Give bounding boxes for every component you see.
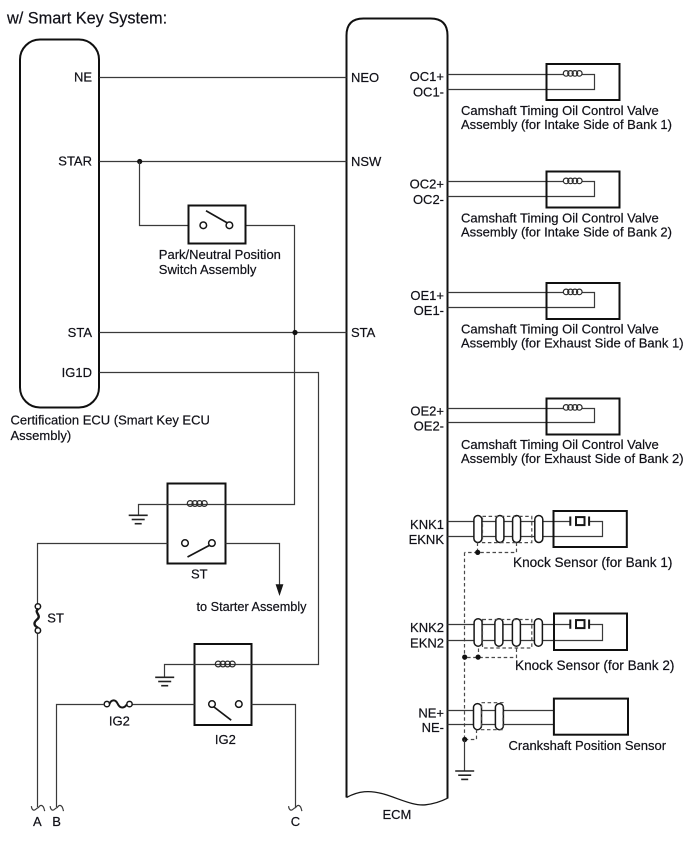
- certification ECU U1 (Smart Key ECU Assembly): [20, 40, 99, 408]
- valve V3 box: [547, 283, 620, 319]
- wire fuse ST to connector A: [37, 634, 39, 808]
- shield (dashed) KNK1 row: [483, 516, 532, 542]
- wire IG1D to IG2 relay coil: [100, 373, 319, 665]
- svg-text:Assembly (for Intake Side of B: Assembly (for Intake Side of Bank 2): [461, 225, 672, 240]
- svg-text:NE+: NE+: [418, 706, 444, 721]
- node STAR branch junction: [137, 159, 142, 164]
- wire EKNK: [448, 522, 603, 537]
- ground at ST relay coil: [129, 515, 148, 523]
- svg-text:IG2: IG2: [109, 714, 130, 729]
- svg-text:NEO: NEO: [351, 70, 379, 85]
- svg-text:NE: NE: [74, 70, 92, 85]
- wire fuse IG2 to connector B: [57, 705, 105, 808]
- svg-text:IG1D: IG1D: [62, 365, 92, 380]
- svg-text:Camshaft Timing Oil Control Va: Camshaft Timing Oil Control Valve: [461, 103, 659, 118]
- wire IG2 contact left to fuse IG2: [133, 704, 195, 706]
- wire switch output to ST relay coil: [226, 226, 295, 505]
- relay ST coil: [168, 504, 226, 506]
- wire OE1+: [448, 292, 564, 294]
- svg-text:Crankshaft Position Sensor: Crankshaft Position Sensor: [509, 738, 667, 753]
- knock sensor 2 piezo element: [570, 620, 589, 629]
- svg-text:B: B: [52, 814, 61, 829]
- shield (dashed) KNK2 row: [483, 620, 532, 649]
- connector C symbol: [289, 805, 302, 811]
- shield drain wire (dashed vertical): [464, 553, 466, 740]
- svg-text:OE2+: OE2+: [410, 403, 444, 418]
- svg-text:Assembly (for Intake Side of B: Assembly (for Intake Side of Bank 1): [461, 117, 672, 132]
- crankshaft position sensor box: [554, 699, 628, 735]
- svg-text:ST: ST: [47, 611, 64, 626]
- svg-text:STA: STA: [351, 325, 376, 340]
- relay ST contact: [188, 545, 211, 557]
- valve V1 coil L1: [563, 71, 582, 77]
- twisted pair loops NE row: [474, 704, 504, 730]
- svg-text:NE-: NE-: [422, 720, 444, 735]
- fuse ST: [35, 604, 41, 634]
- svg-text:Knock Sensor (for Bank 1): Knock Sensor (for Bank 1): [513, 555, 672, 570]
- connector B symbol: [50, 805, 63, 811]
- svg-text:OC2+: OC2+: [410, 177, 444, 192]
- wire ST contact right to starter arrow: [226, 544, 280, 585]
- shield drain stubs NE row: [465, 730, 477, 740]
- svg-text:OE2-: OE2-: [414, 419, 444, 434]
- wire ST coil to ground: [139, 505, 168, 515]
- valve V3 coil L3: [563, 289, 582, 295]
- svg-text:Knock Sensor (for Bank 2): Knock Sensor (for Bank 2): [515, 658, 674, 673]
- ECM U2 body: [347, 19, 448, 799]
- svg-text:NSW: NSW: [351, 154, 382, 169]
- relay IG2 contact: [214, 707, 231, 720]
- svg-text:STA: STA: [68, 325, 93, 340]
- wire IG2 coil to ground: [165, 665, 195, 677]
- svg-text:Camshaft Timing Oil Control Va: Camshaft Timing Oil Control Valve: [461, 437, 659, 452]
- wire OE1-: [448, 293, 595, 308]
- wire NE to NEO: [100, 77, 347, 79]
- connector A symbol: [31, 805, 44, 811]
- svg-text:OC1-: OC1-: [413, 85, 444, 100]
- svg-text:Certification ECU (Smart Key E: Certification ECU (Smart Key ECU: [11, 413, 210, 428]
- shield drain stubs KNK2 row: [465, 649, 517, 658]
- node shield junction KNK1: [475, 550, 480, 555]
- wire OE2+: [448, 408, 564, 410]
- wire shield drain to ground: [464, 740, 466, 771]
- svg-text:EKNK: EKNK: [409, 532, 445, 547]
- svg-text:Switch Assembly: Switch Assembly: [159, 262, 257, 277]
- ECM torn bottom edge: [347, 792, 448, 805]
- knock sensor 1 box: [554, 511, 627, 547]
- svg-text:KNK1: KNK1: [410, 517, 444, 532]
- shield (dashed) NE row: [482, 703, 504, 730]
- knock sensor 2 box: [554, 614, 627, 651]
- wire STAR to NSW: [100, 161, 347, 163]
- node shield junction KNK2 left: [462, 655, 467, 660]
- wire OE2-: [448, 409, 595, 423]
- valve V4 coil L4: [563, 405, 582, 411]
- valve V1 box: [547, 64, 620, 100]
- svg-text:Camshaft Timing Oil Control Va: Camshaft Timing Oil Control Valve: [461, 210, 659, 225]
- wire IG2 contact right to connector C: [252, 705, 296, 808]
- svg-text:w/ Smart Key System:: w/ Smart Key System:: [6, 9, 167, 27]
- svg-text:ST: ST: [191, 567, 208, 582]
- svg-text:OC2-: OC2-: [413, 192, 444, 207]
- relay IG2: [195, 644, 252, 725]
- svg-text:OE1+: OE1+: [410, 288, 444, 303]
- wire OC1-: [448, 75, 595, 90]
- wire EKN2: [448, 625, 603, 641]
- ground at IG2 relay coil: [155, 677, 174, 685]
- svg-text:A: A: [33, 814, 42, 829]
- svg-text:IG2: IG2: [215, 732, 236, 747]
- svg-text:Assembly): Assembly): [11, 428, 72, 443]
- relay IG2 coil: [195, 664, 252, 666]
- valve V2 coil L2: [563, 178, 582, 184]
- wire OC1+: [448, 74, 564, 76]
- svg-text:OC1+: OC1+: [410, 69, 444, 84]
- svg-text:Assembly (for Exhaust Side of: Assembly (for Exhaust Side of Bank 2): [461, 451, 684, 466]
- svg-text:Assembly (for Exhaust Side of: Assembly (for Exhaust Side of Bank 1): [461, 336, 684, 351]
- arrow to starter assembly: [276, 584, 284, 596]
- wire OC2-: [448, 182, 595, 197]
- valve V4 box: [547, 399, 620, 435]
- fuse IG2: [104, 700, 132, 707]
- valve V2 box: [547, 172, 620, 208]
- svg-text:STAR: STAR: [58, 154, 92, 169]
- wire KNK1: [448, 521, 571, 523]
- wire OC2+: [448, 181, 564, 183]
- svg-text:C: C: [291, 814, 300, 829]
- node shield junction NE row: [462, 737, 467, 742]
- shield drain stubs KNK1 row: [465, 543, 517, 553]
- knock sensor 1 piezo element: [570, 517, 589, 526]
- wire ST contact left to fuse ST: [38, 544, 168, 604]
- svg-text:EKN2: EKN2: [410, 636, 444, 651]
- wire NE+: [448, 710, 554, 712]
- ground at shield drain: [455, 771, 474, 779]
- wire STA to STA: [100, 332, 347, 334]
- svg-text:to Starter Assembly: to Starter Assembly: [197, 600, 308, 614]
- svg-text:Park/Neutral Position: Park/Neutral Position: [159, 247, 281, 262]
- node shield junction KNK2 right: [476, 655, 481, 660]
- switch S1 Park/Neutral Position Switch Assembly: [189, 206, 246, 244]
- svg-text:OE1-: OE1-: [414, 303, 444, 318]
- wire KNK2: [448, 624, 571, 626]
- node STA junction: [292, 330, 297, 335]
- wire NE-: [448, 724, 554, 726]
- twisted pair loops KNK2 row: [474, 619, 542, 647]
- svg-text:Camshaft Timing Oil Control Va: Camshaft Timing Oil Control Valve: [461, 321, 659, 336]
- svg-text:KNK2: KNK2: [410, 620, 444, 635]
- svg-text:ECM: ECM: [383, 807, 412, 822]
- relay ST: [168, 484, 226, 564]
- twisted pair loops KNK1 row: [474, 516, 543, 543]
- wire STAR branch to park/neutral switch: [140, 162, 189, 226]
